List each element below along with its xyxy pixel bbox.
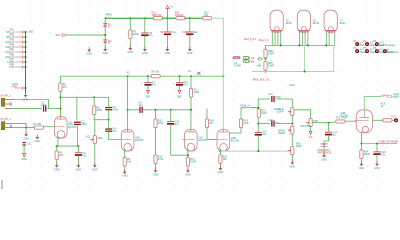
wire: junction to C4 [108,120,110,129]
wire: cathode link [57,145,79,147]
wire: C14 down to cathode [171,125,188,156]
svg-text:22n: 22n [262,133,267,136]
junction [360,143,362,145]
svg-text:WB: WB [257,64,261,67]
capacitor C11 below jack2 [22,142,32,146]
svg-text:PWT: PWT [393,96,399,99]
ground [186,168,190,172]
capacitor C14 bass [271,120,275,126]
svg-text:Red_5_A1: Red_5_A1 [244,38,256,41]
pad TP4 [355,49,359,53]
potentiometer VOL [91,136,97,144]
wire: pale vertical feed down [222,18,224,76]
capacitor C5 coupling [139,107,143,113]
resistor R5 cathode [123,158,126,167]
wire [147,86,149,91]
svg-text:GND: GND [165,52,171,55]
svg-text:R_0_6B: R_0_6B [245,60,254,63]
svg-text:47u: 47u [183,84,188,87]
wire: V4B plate up [364,97,381,110]
wire: to treble pot [276,99,292,108]
svg-text:220R: 220R [268,65,274,68]
wire [265,58,267,62]
wire [179,86,181,91]
junction [304,71,306,73]
tube V7 EL84 [324,10,337,33]
svg-text:GND: GND [153,173,159,176]
diode D1 [104,23,107,26]
svg-text:C13: C13 [268,93,273,96]
junction [187,154,189,156]
wire: V1A cathode drop [57,137,59,147]
resistor R12 [203,17,212,20]
ground sleeve [35,135,39,139]
resistor R25 humdinger [264,49,267,58]
wire: bass to mid [291,134,293,147]
wire: corner down to coupling cap C2 [76,97,78,120]
wire [155,164,157,170]
net flag RED_0_6A [244,56,255,59]
svg-text:GND: GND [321,158,327,161]
svg-text:GND: GND [187,52,193,55]
wire [324,135,329,144]
junction [376,143,378,145]
svg-text:220R: 220R [268,52,274,55]
wire [104,43,106,49]
wire: tail top corner [241,108,258,119]
svg-text:EL84: EL84 [286,22,292,25]
wire [77,146,79,152]
wire [376,155,378,163]
svg-text:ECC83: ECC83 [68,126,77,129]
potentiometer TREBLE [288,108,294,116]
junction plate node V1A [59,96,61,98]
resistor R3 [93,106,96,115]
svg-text:GND: GND [28,31,34,34]
net flag arrow AB1 [146,90,151,98]
net flag MAIN out [382,94,400,100]
wire [187,166,189,170]
svg-text:100k: 100k [194,91,200,94]
svg-text:AB2: AB2 [177,96,182,99]
wire [77,156,79,165]
resistor R23 output [383,119,392,122]
junction [280,44,282,46]
svg-text:680p: 680p [81,123,87,126]
connector J1 pin 4 [5,44,25,49]
junction [328,122,330,124]
svg-text:PRESENCE: PRESENCE [318,151,332,154]
pad TP5 [365,49,369,53]
wire: V4B cathode down [360,132,362,144]
svg-text:GND: GND [23,99,29,102]
wire [124,166,126,171]
wire: bus2 drop x148 [147,76,149,82]
wire: drop to diodes [104,18,106,23]
svg-text:VOL: VOL [86,136,92,139]
junction [25,31,27,33]
ground [77,163,81,167]
svg-text:820R: 820R [190,161,196,164]
wire: screen drop left [304,45,306,71]
ground [55,163,59,167]
pad PE pin [12,83,26,89]
resistor R10 [176,17,185,20]
svg-text:100k: 100k [261,112,267,115]
junction [222,75,224,77]
wire: down right branch [93,97,95,106]
wire [144,36,146,48]
svg-text:P$3: P$3 [10,39,15,42]
tube V1B [120,129,134,152]
wire: C3 bottom to junction [108,110,110,119]
svg-text:P$1: P$1 [10,29,15,32]
capacitor C8 [141,32,148,36]
svg-text:220R: 220R [133,33,139,36]
svg-text:22u: 22u [171,31,176,34]
junction [25,87,27,89]
svg-text:GND: GND [128,51,134,54]
svg-text:SET: SET [56,34,61,37]
junction [108,119,110,121]
svg-text:C14: C14 [268,119,273,122]
connector J1 pin 6 [5,54,25,59]
junction [25,61,27,63]
svg-text:EL84: EL84 [340,22,346,25]
wire: bypass cap drop [170,110,172,121]
svg-text:C11: C11 [27,143,32,146]
svg-text:GND: GND [142,52,148,55]
wire: jack1 to C1 [12,108,42,110]
junction [56,145,58,147]
wire: jack2 ground drop [25,128,27,134]
resistor R7 on x60 drop [59,83,62,92]
wire: bus2 right part [160,75,223,77]
junction [219,150,221,152]
svg-text:P$2: P$2 [10,34,15,37]
svg-text:ECC83: ECC83 [231,139,240,142]
junction [25,51,27,53]
ground connector bus [24,93,28,97]
ground [143,47,147,51]
svg-text:22u: 22u [194,31,199,34]
junction [170,109,172,111]
resistor R8 in bus2 [151,75,160,78]
supply symbol +V [166,5,174,18]
svg-text:+V: +V [170,6,173,9]
wire: to pot chain [276,123,292,125]
svg-text:1MA: 1MA [97,137,102,140]
wire: cathode link bottom [253,71,334,73]
svg-text:470p: 470p [275,96,281,99]
ground [188,47,192,51]
svg-text:GND: GND [218,171,224,174]
capacitor C10 [186,31,193,35]
wire [56,146,58,151]
net flag SET [56,34,67,37]
capacitor C1 [43,106,47,112]
wire: pot to ground [94,144,96,165]
wire: V6 pins [300,33,308,45]
svg-text:ECC83: ECC83 [135,139,144,142]
junction [104,34,106,36]
wire: V7 pins [326,33,334,45]
svg-text:ECC83: ECC83 [198,139,207,142]
junction [325,44,327,46]
ground [128,46,132,50]
wire [155,128,157,155]
connector J1 pin 3 [5,39,25,44]
ground stray [87,48,91,52]
wire: to V2B grid [207,128,216,140]
svg-text:OUT: OUT [391,116,397,119]
svg-text:P$5: P$5 [10,49,15,52]
svg-text:PEAK_A: PEAK_A [240,105,250,108]
wire: C3 top [108,97,110,107]
switch FREQ ADJ [318,144,332,155]
wire: drop to R9 [129,18,131,30]
wire: drop to C9 [166,18,168,31]
ground [290,160,294,164]
junction [25,66,27,68]
potentiometer MID [288,147,294,155]
wire: treble wiper to master [294,110,311,119]
wire: V5 pins [272,33,280,45]
wire: bus2 drop to V2A plate [190,76,192,88]
svg-text:P$8: P$8 [10,64,15,67]
svg-text:100kP: 100kP [278,132,285,135]
potentiometer MASTER [306,119,312,127]
potentiometer BASS [288,126,294,134]
svg-text:GND: GND [102,52,108,55]
ground [123,170,127,174]
pad TP2 [365,42,369,46]
junction [25,36,27,38]
resistor R11 [154,17,163,20]
wire: jack1 tip [12,100,49,109]
resistor R4 cathode [55,151,58,160]
junction humdinger bottom [265,71,267,73]
svg-text:22n: 22n [113,130,118,133]
wire: pale plate feed V2B [222,76,224,130]
ground jack [24,132,28,136]
svg-text:47u: 47u [152,84,157,87]
wire: V1B cathode [124,150,126,158]
wire [323,146,325,154]
svg-text:MainB+supply: MainB+supply [380,44,397,47]
wire: plate tap horizontal [60,96,94,98]
svg-text:AB1: AB1 [146,96,151,99]
junction [93,96,95,98]
wire: master bottom stub [310,127,312,132]
svg-text:ECC83: ECC83 [341,114,350,117]
junction [190,109,192,111]
capacitor C14 [167,121,174,125]
wire: x60 drop continues [59,92,61,117]
resistor R22 grid [336,120,345,123]
svg-text:GND: GND [86,53,92,56]
wire [166,35,168,48]
wire: R22 to V4 grid [345,120,357,122]
svg-text:GND: GND [76,168,82,171]
wire: B+ rail segment 1 [106,17,154,19]
wire: cathode rail [361,143,396,145]
junction [147,75,149,77]
capacitor C9 [164,31,171,35]
wire: mid bottom to ground [291,155,293,162]
net flag center tap [257,58,262,68]
wire [219,164,221,168]
jack J3 input 2 [1,118,12,130]
junction [144,17,146,19]
svg-text:1k5: 1k5 [59,154,64,157]
wire: heater bus connecting tubes [266,44,334,46]
svg-text:Red_0_6: Red_0_6 [259,39,270,42]
junction [127,109,129,111]
wire: bus2 drop x179.5 [179,76,181,82]
junction [127,75,129,77]
wire: V2A cathode [187,150,189,158]
svg-text:100kP: 100kP [276,110,283,113]
ground [375,162,379,166]
resistor R17 [186,158,189,167]
wire: humdinger top [265,45,267,49]
wire [376,144,378,152]
resistor R9 [129,30,132,39]
capacitor C4 [105,128,112,132]
svg-text:GND: GND [21,158,27,161]
wire [329,121,336,124]
wire: bus2 corner vertical at x60 [59,76,61,83]
capacitor C19 bypass [373,151,380,155]
capacitor C3 [105,107,112,111]
svg-text:GND: GND [122,175,128,178]
capacitor C12 [176,82,183,86]
ground [93,163,97,167]
pad TP7 [383,49,387,53]
wire: mid tap to left [66,34,105,36]
svg-text:P$6: P$6 [10,54,15,57]
tube V5 EL84 [270,10,283,33]
resistor R16 plate load [189,89,192,98]
wire: V4B output right [372,119,383,121]
svg-text:4-8: 4-8 [309,136,313,139]
svg-text:820R: 820R [364,153,370,156]
fuse F1 [233,57,241,68]
wire: bass cap row [258,123,270,125]
svg-text:25kP: 25kP [296,145,302,148]
wire [143,109,191,111]
connector J1 pin 7 [7,59,25,64]
wire: grid chain corner [206,109,208,119]
wire below C2 [76,126,78,146]
resistor R24 cathode [360,150,363,159]
junction [265,58,267,60]
svg-text:GND: GND [92,168,98,171]
ground [322,153,326,157]
jack J2 input 1 [1,95,12,109]
ground [360,162,364,166]
svg-text:GND: GND [185,173,191,176]
svg-text:R8 10k: R8 10k [152,71,161,74]
svg-text:470k: 470k [158,158,164,161]
svg-text:RWS_PLK_A1: RWS_PLK_A1 [253,78,270,81]
wire: junction down to C17 [328,123,330,132]
wire: plate tap to C3 [94,96,109,98]
resistor R1 grid stopper [35,126,44,129]
wire: treble top [258,98,270,100]
junction [77,145,79,147]
junction [307,44,309,46]
junction [25,46,27,48]
wire: master wiper to junction [312,122,328,124]
capacitor C6 cathode bypass [75,152,82,156]
svg-text:470p: 470p [113,109,119,112]
svg-text:MAIN: MAIN [382,95,388,98]
wire [56,160,58,165]
svg-text:150k/1W: 150k/1W [152,14,163,17]
wire: cathode out to tone return [220,150,288,152]
svg-text:P$7: P$7 [10,59,15,62]
svg-text:470n: 470n [41,104,47,107]
junction [299,44,301,46]
junction input node [59,108,61,110]
capacitor C17 [325,132,332,136]
wire: bus2 horizontal [60,75,151,77]
resistor R26 humdinger [264,62,267,71]
svg-text:C10: C10 [182,31,187,34]
junction [190,75,192,77]
wire [392,119,396,121]
junction [25,56,27,58]
svg-text:GND: GND [290,166,296,169]
svg-text:22u: 22u [82,154,87,157]
svg-text:Standby-pt: Standby-pt [387,51,399,54]
capacitor C15 [255,132,262,136]
junction [179,75,181,77]
junction [291,123,293,125]
wire: pot feed [94,120,96,136]
capacitor C2 [74,122,81,126]
svg-text:P$4: P$4 [10,44,15,47]
wire: R1 to V1 grid [44,126,54,128]
svg-text:100k: 100k [243,122,249,125]
pad TP3 [375,42,379,46]
wire: grid chain down [155,110,157,119]
svg-text:MAIN: MAIN [106,14,112,17]
wire: to corner [94,114,109,119]
net flag RED_0_6B [244,60,255,63]
net flag PEAK [240,105,255,108]
junction [129,17,131,19]
junction [155,109,157,111]
junction [189,17,191,19]
svg-text:GND: GND [359,167,365,170]
ground [154,168,158,172]
svg-text:EL84: EL84 [313,22,319,25]
ground [219,166,223,170]
wire [189,35,191,48]
ground flag master [309,132,313,139]
resistor R21 slope [257,109,260,118]
svg-text:GND: GND [374,167,380,170]
svg-text:R1 68k: R1 68k [33,123,42,126]
wire: B+ rail segment 2 [163,17,177,19]
connector J1 pin 1 [6,29,26,34]
connector J1 pin 2 [6,34,26,39]
resistor R19 tail [239,119,242,128]
pad TP6 [375,49,379,53]
